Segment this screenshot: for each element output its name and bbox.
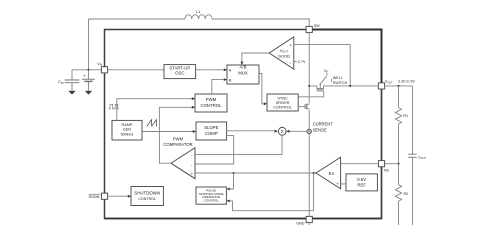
wire: EA output line to PWM comparator [195, 172, 316, 174]
svg-text:B: B [229, 77, 232, 82]
wire: RAMP GEN ramp output to SLOPE COMP [142, 131, 195, 133]
box START-UP OSC [164, 65, 196, 79]
svg-text:OSC: OSC [175, 70, 184, 75]
clock pulse glyph [109, 104, 119, 109]
wire: VOUT GOOD + input sense from VOUT rail [294, 45, 350, 86]
svg-text:VIN: VIN [324, 69, 329, 74]
svg-text:CIN: CIN [58, 79, 64, 85]
svg-text:A/B: A/B [240, 65, 247, 70]
svg-text:VOUT: VOUT [385, 80, 393, 85]
svg-text:A: A [229, 67, 232, 72]
svg-text:PWM: PWM [206, 97, 217, 102]
ground (CIN) [68, 91, 75, 95]
resistor R2 [395, 164, 408, 225]
transistor Q2 synchronous PMOS [309, 86, 378, 91]
wire: VIN pin to START-UP OSC [108, 69, 164, 71]
box RAMP GEN [112, 120, 142, 140]
node: pulse-skip branch 2 [313, 172, 315, 174]
node: VOUT-good tap on output rail [349, 85, 351, 87]
svg-text:SW: SW [314, 24, 320, 28]
svg-text:RAMP: RAMP [122, 123, 133, 127]
wire: branch to pulse skip input 1 [228, 173, 233, 189]
op-amp PWM COMPARATOR [163, 137, 195, 179]
wire: summing node output to PWM comparator [195, 136, 282, 155]
sawtooth ramp glyph [147, 120, 157, 127]
wire: bottom boundary dark [105, 218, 382, 220]
summing node [278, 127, 286, 135]
svg-text:FB: FB [384, 168, 389, 172]
wire: top line to inductor [89, 18, 186, 20]
svg-text:DRIVER: DRIVER [276, 101, 290, 105]
pin SW [306, 24, 320, 33]
battery [82, 70, 95, 91]
op-amp EA error amplifier [316, 157, 341, 189]
node: R1 top junction [397, 85, 399, 87]
wire: SHDN pin to SHUTDOWN CONTROL [108, 195, 130, 197]
wire: PMOS gate drive from SYNC DRIVER CONTROL [298, 91, 324, 97]
wire: current sense to summing node [288, 130, 307, 132]
box SLOPE COMP [196, 122, 227, 140]
svg-text:REF: REF [357, 183, 366, 188]
svg-text:SYNC: SYNC [277, 96, 288, 100]
svg-text:GOOD: GOOD [278, 53, 290, 58]
box PULSE SKIPPING MODE OPERATION CONTROL [196, 187, 226, 204]
node: pulse-skip branch 1 [232, 172, 234, 174]
wire: NMOS gate drive from SYNC DRIVER CONTROL [298, 106, 305, 108]
svg-text:+: + [336, 181, 339, 186]
svg-text:2.7V: 2.7V [298, 59, 306, 64]
svg-text:GEN: GEN [123, 128, 131, 132]
pin FB [378, 161, 389, 173]
IC boundary [105, 30, 382, 219]
inductor L1 [185, 15, 212, 19]
svg-text:R2: R2 [404, 192, 409, 196]
box A/B MUX [227, 65, 259, 84]
wire: reference to EA non-inverting input [341, 183, 346, 185]
svg-text:+: + [289, 43, 292, 48]
svg-text:COMPARATOR: COMPARATOR [163, 142, 192, 147]
svg-text:0.6V: 0.6V [357, 177, 366, 182]
pin VIN [97, 62, 107, 73]
wire: current sense to GND pin [308, 134, 310, 217]
svg-text:+: + [191, 171, 194, 176]
wire: FB pin to EA inverting input [341, 163, 379, 165]
svg-text:SHUTDOWN: SHUTDOWN [134, 190, 160, 195]
svg-text:SENSE: SENSE [313, 128, 327, 133]
well switch [319, 69, 347, 89]
svg-text:SHDN: SHDN [89, 195, 100, 199]
svg-text:GND: GND [296, 222, 305, 225]
wire: PWM CONTROL to MUX B [212, 80, 226, 94]
svg-text:CONTROL: CONTROL [204, 199, 219, 203]
wire: inductor to SW pin [212, 19, 309, 26]
svg-text:R1: R1 [403, 114, 408, 118]
wire: VOUT pin to output rail [385, 85, 413, 87]
box SHUTDOWN CONTROL [131, 187, 163, 206]
wire: branch to pulse skip input 2 [228, 173, 314, 211]
wire: START-UP OSC to MUX A [196, 69, 226, 71]
svg-text:SLOPE: SLOPE [204, 125, 218, 130]
svg-text:CONTROL: CONTROL [273, 106, 292, 110]
resistor R1 [395, 86, 408, 164]
pin VOUT [378, 80, 393, 89]
svg-text:+: + [83, 73, 86, 78]
svg-text:3.3V to 5V: 3.3V to 5V [398, 80, 416, 84]
wire: GND pin external [308, 223, 310, 225]
op-amp VOUT GOOD comparator [269, 37, 294, 69]
box 0.6V REF [346, 174, 377, 191]
capacitor COUT [408, 86, 426, 225]
box SYNC DRIVER CONTROL [267, 94, 298, 111]
capacitor CIN [58, 70, 79, 91]
ground (battery) [85, 91, 92, 95]
wire: SW to VOUT dark boundary path [309, 30, 381, 86]
wire: PWM comparator output to PWM CONTROL [159, 107, 193, 163]
node: FB junction [397, 163, 399, 165]
svg-text:VIN: VIN [97, 62, 102, 67]
svg-text:CONTROL: CONTROL [200, 103, 222, 108]
svg-text:EA: EA [329, 171, 335, 176]
svg-text:CURRENT: CURRENT [313, 122, 334, 127]
box PWM CONTROL [195, 94, 227, 112]
wire: SLOPE COMP output to summing node [227, 130, 277, 132]
node: junction battery/riser [87, 69, 89, 71]
svg-text:MUX: MUX [238, 70, 248, 75]
svg-text:COUT: COUT [418, 155, 426, 160]
wire: RAMP GEN clock to PWM CONTROL [117, 99, 194, 121]
svg-text:500kHz: 500kHz [121, 132, 134, 136]
svg-text:L1: L1 [196, 9, 200, 14]
wire: MUX output to SYNC DRIVER CONTROL [259, 73, 265, 103]
current sense element [307, 122, 333, 134]
wire: right boundary lower [381, 89, 383, 219]
svg-text:Σ: Σ [281, 129, 284, 134]
pin SHDN [89, 193, 108, 199]
svg-text:COMP: COMP [205, 131, 218, 136]
wire: VOUT GOOD output to MUX select [242, 53, 269, 63]
svg-text:WELL: WELL [333, 76, 343, 80]
wire: SLOPE COMP second output to PWM comparator [195, 136, 234, 164]
pin GND [296, 216, 312, 225]
wire: FB pin to divider [385, 163, 399, 165]
wire: SW rail down from SW pin [308, 33, 310, 104]
svg-text:CONTROL: CONTROL [138, 197, 156, 201]
svg-text:PWM: PWM [173, 137, 184, 142]
wire: VIN source horizontal to VIN pin [72, 69, 101, 71]
transistor Q1 NMOS switch [305, 104, 309, 110]
wire: 2.7V reference stub [294, 61, 297, 63]
wire: NMOS source down to current sense [308, 110, 310, 130]
node: PMOS source tap [308, 85, 310, 87]
wire: riser from VIN node up to inductor line [88, 19, 90, 70]
svg-text:SWITCH: SWITCH [333, 81, 348, 85]
